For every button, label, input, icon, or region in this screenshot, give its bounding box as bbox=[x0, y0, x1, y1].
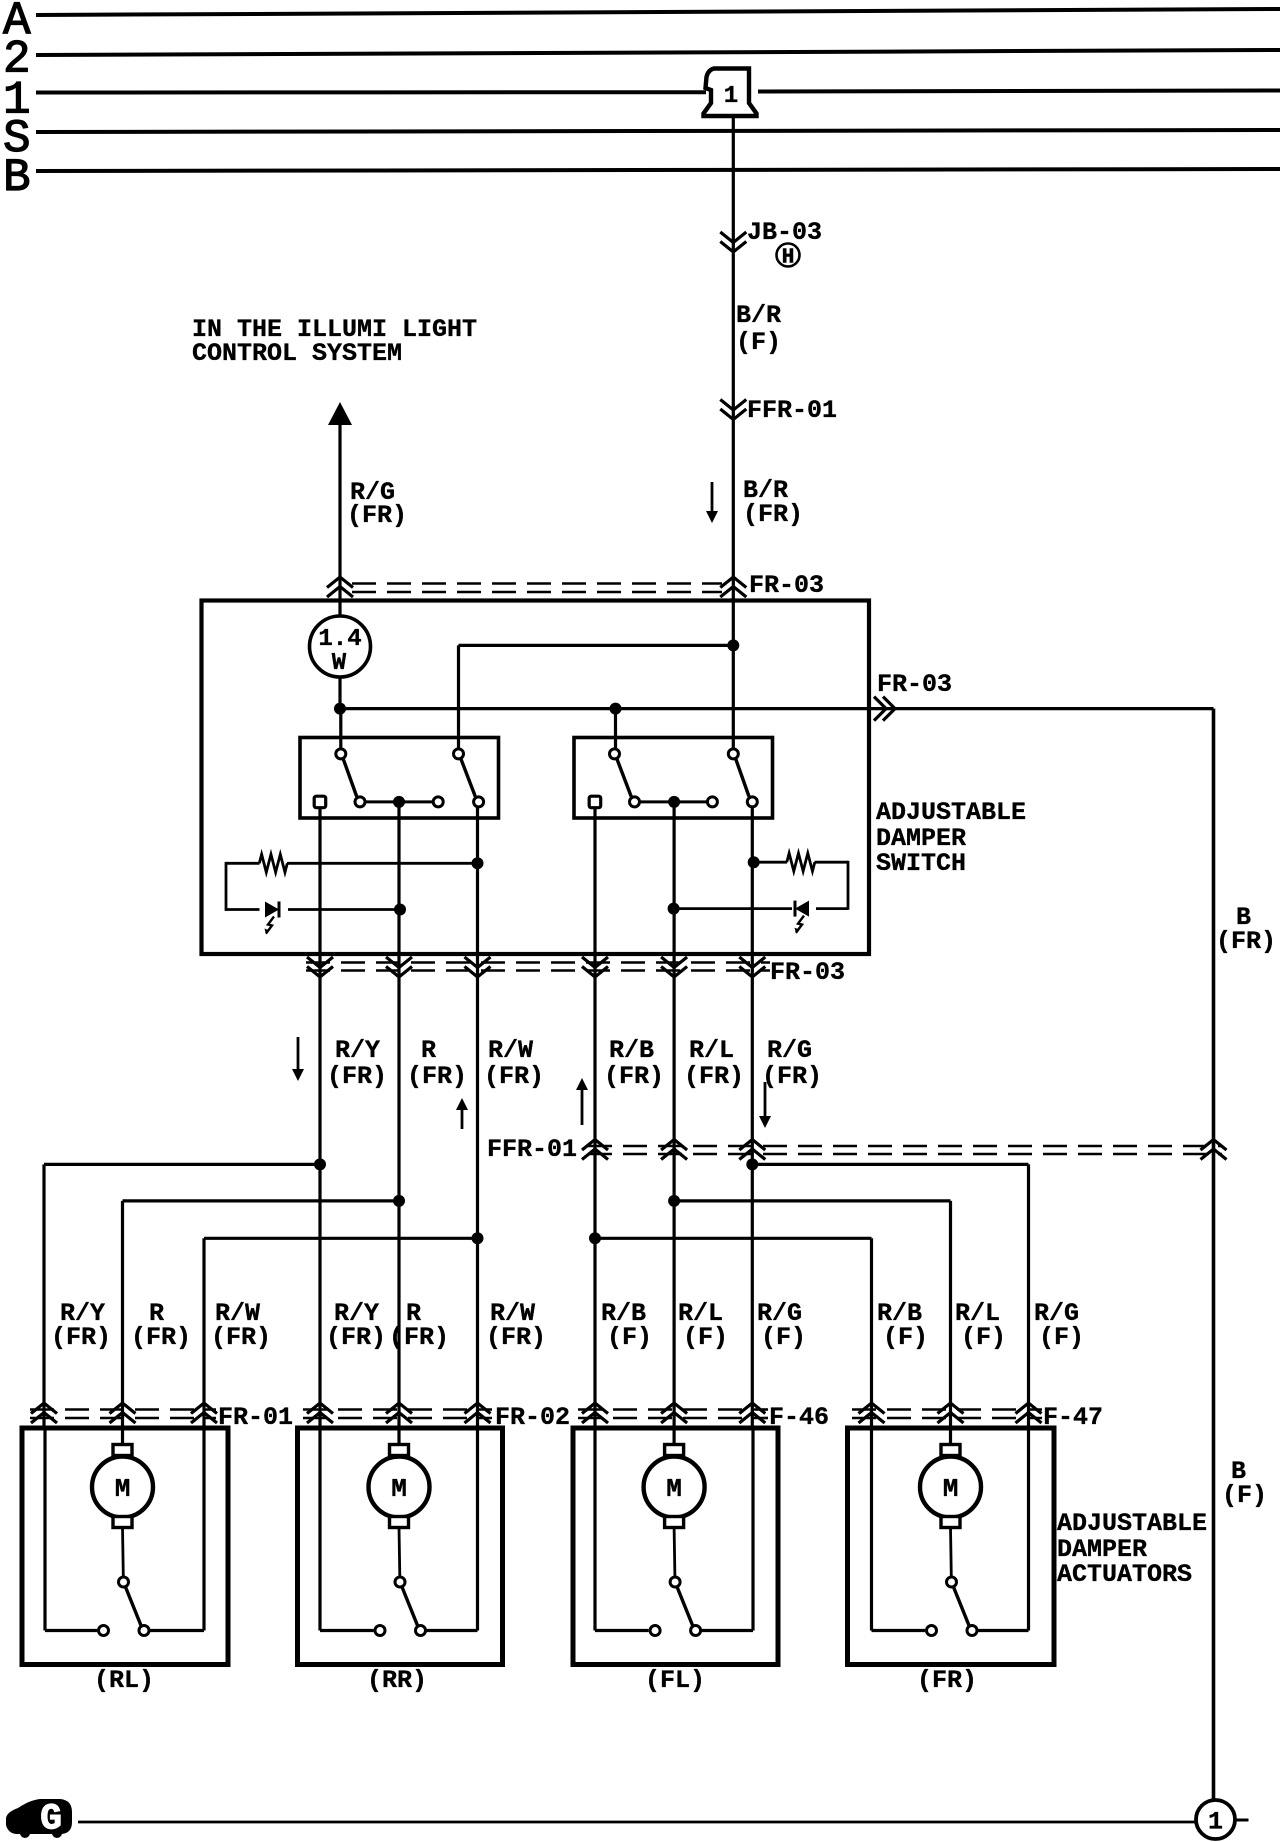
node branch R/W bbox=[472, 1232, 484, 1244]
svg-text:(F): (F) bbox=[761, 1323, 806, 1352]
svg-text:FR-03: FR-03 bbox=[877, 670, 952, 699]
svg-text:FFR-01: FFR-01 bbox=[747, 396, 837, 425]
wire branch row 3 right (R/B to FR) bbox=[595, 1237, 872, 1240]
node left LED tap on R wire bbox=[394, 904, 406, 916]
svg-text:(FR): (FR) bbox=[131, 1323, 191, 1352]
wire R/B(FR) from switch to actuator branch bbox=[593, 808, 596, 1428]
connector FR-03 bottom chevron x595 bbox=[582, 967, 608, 978]
svg-text:B: B bbox=[3, 152, 31, 204]
bus line 1 right segment bbox=[758, 91, 1280, 92]
svg-text:(FR): (FR) bbox=[604, 1062, 664, 1091]
connector FFR-01 dashed lines bbox=[588, 1145, 1222, 1148]
svg-text:1: 1 bbox=[724, 83, 738, 110]
svg-text:(FR): (FR) bbox=[484, 1062, 544, 1091]
connector FFR-01 chevron on B wire bbox=[1201, 1140, 1227, 1151]
wire branch row 3 left (R/W to RL) bbox=[204, 1237, 478, 1240]
node branch R/Y bbox=[314, 1158, 326, 1170]
svg-text:(FR): (FR) bbox=[1216, 927, 1276, 956]
wire R(FR) from switch to actuator branch bbox=[397, 802, 400, 1428]
bus line 1 left segment bbox=[36, 90, 706, 94]
svg-text:FR-03: FR-03 bbox=[770, 958, 845, 987]
wire R/G(FR) from switch to actuator branch bbox=[751, 808, 754, 1428]
wire branch row 1 right (R/G to FR) bbox=[752, 1163, 1028, 1166]
wire right switch feed bbox=[614, 709, 617, 748]
svg-text:H: H bbox=[782, 247, 795, 270]
svg-text:(FL): (FL) bbox=[645, 1666, 705, 1695]
arrow down beside R/G wire bbox=[764, 1082, 767, 1117]
svg-text:(FR): (FR) bbox=[917, 1666, 977, 1695]
node branch R/L bbox=[668, 1195, 680, 1207]
bus line B bbox=[36, 169, 1280, 171]
connector F-46 chevron x674 bbox=[661, 1403, 687, 1414]
wire bulb junction to left switch bbox=[339, 709, 342, 748]
connector FR-01 chevron x44 bbox=[31, 1403, 57, 1414]
wire branch row 2 left (R to RL) bbox=[123, 1199, 400, 1202]
svg-text:R: R bbox=[421, 1036, 436, 1065]
wire branch row 2 right (R/L to FR) bbox=[674, 1199, 950, 1202]
svg-text:(FR): (FR) bbox=[389, 1323, 449, 1352]
connector FR-03 exit chevron bbox=[883, 697, 895, 721]
ground node 1 circle bbox=[1196, 1800, 1235, 1839]
connector FFR-01 chevron x674 bbox=[661, 1140, 687, 1151]
svg-text:(FR): (FR) bbox=[684, 1062, 744, 1091]
connector F-46 chevron x595 bbox=[582, 1403, 608, 1414]
wire B/R from tag 1 down into switch box bbox=[732, 116, 735, 748]
node right LED tap on R/L wire bbox=[668, 903, 680, 915]
svg-text:R/W: R/W bbox=[488, 1036, 533, 1065]
connector FR-03 bottom chevron x674 bbox=[661, 967, 687, 978]
svg-text:(FR): (FR) bbox=[211, 1323, 271, 1352]
wire bulb to junction bbox=[338, 677, 341, 712]
wire feeder R/W(FR) to RL bbox=[202, 1238, 205, 1428]
connector FR-03 bottom chevron x399 bbox=[386, 967, 412, 978]
node branch R bbox=[393, 1195, 405, 1207]
arrow up beside R/W wire bbox=[461, 1109, 464, 1129]
svg-text:SWITCH: SWITCH bbox=[876, 849, 966, 878]
node branch R/G bbox=[746, 1158, 758, 1170]
svg-text:(F): (F) bbox=[961, 1323, 1006, 1352]
svg-text:(FR): (FR) bbox=[347, 501, 407, 530]
svg-text:M: M bbox=[391, 1474, 407, 1504]
connector FR-02 dashed lines bbox=[303, 1408, 492, 1411]
connector FR-03 bottom chevron x320 bbox=[307, 967, 333, 978]
wire branch row 1 left (R/Y to RL) bbox=[44, 1163, 320, 1166]
svg-text:JB-03: JB-03 bbox=[747, 218, 822, 247]
svg-text:1.4: 1.4 bbox=[318, 626, 361, 653]
connector FR-03 bottom dashed lines bbox=[306, 961, 770, 964]
arrow down beside B/R (FR) bbox=[711, 482, 714, 512]
ground wire bbox=[78, 1821, 1196, 1824]
wire R/G from switch box up bbox=[338, 424, 341, 616]
connector FFR-01 chevron on B/R wire bbox=[720, 409, 746, 420]
connector F-46 chevron x752 bbox=[739, 1403, 765, 1414]
connector FFR-01 chevron x595 bbox=[582, 1140, 608, 1151]
svg-text:ADJUSTABLE: ADJUSTABLE bbox=[876, 798, 1026, 827]
connector JB-03 chevron bbox=[720, 242, 746, 253]
svg-text:W: W bbox=[332, 650, 347, 677]
bus line 2 bbox=[36, 50, 1280, 55]
bus line A bbox=[36, 9, 1280, 15]
node over-link junction on B/R bbox=[727, 639, 739, 651]
bulb 1.4W circle bbox=[310, 616, 371, 677]
connector FR-01 chevron x122 bbox=[110, 1403, 136, 1414]
svg-text:CONTROL SYSTEM: CONTROL SYSTEM bbox=[192, 339, 402, 368]
svg-text:FFR-01: FFR-01 bbox=[487, 1135, 577, 1164]
node bulb junction bbox=[334, 703, 346, 715]
wire feeder R/G(F) to FR bbox=[1027, 1164, 1030, 1428]
svg-text:(RR): (RR) bbox=[367, 1666, 427, 1695]
svg-text:FR-02: FR-02 bbox=[495, 1403, 570, 1432]
connector FR-02 chevron x477 bbox=[465, 1403, 491, 1414]
svg-text:(F): (F) bbox=[1222, 1481, 1267, 1510]
node left resistor tap on R/W wire bbox=[472, 857, 484, 869]
ground symbol G (body ground) bbox=[6, 1799, 72, 1834]
wire FR-03 internal horizontal bbox=[340, 707, 869, 710]
svg-text:(FR): (FR) bbox=[327, 1062, 387, 1091]
actuator RL (adjustable damper actuator rear-left) bbox=[22, 1428, 228, 1665]
harness symbol H in circle bbox=[777, 244, 800, 267]
arrow up beside R/B wire bbox=[581, 1089, 584, 1125]
arrow up to illumi light control system bbox=[328, 402, 352, 425]
node FR-03 to right switch junction bbox=[610, 703, 622, 715]
svg-text:R/G: R/G bbox=[767, 1036, 812, 1065]
svg-text:(FR): (FR) bbox=[762, 1062, 822, 1091]
svg-text:(FR): (FR) bbox=[743, 500, 803, 529]
wire feeder R/Y(FR) to RL bbox=[42, 1164, 45, 1428]
svg-text:(F): (F) bbox=[607, 1323, 652, 1352]
wire R/L(FR) from switch to actuator branch bbox=[672, 802, 675, 1428]
actuator FL (adjustable damper actuator front-left) bbox=[573, 1428, 778, 1665]
resistor right bbox=[787, 853, 815, 871]
svg-text:M: M bbox=[943, 1474, 959, 1504]
connector FR-02 chevron x399 bbox=[386, 1403, 412, 1414]
actuator FR (adjustable damper actuator front-right) bbox=[848, 1428, 1055, 1665]
node right resistor tap on R/G wire bbox=[748, 856, 760, 868]
wire feeder R/B(F) to FR bbox=[870, 1238, 873, 1428]
connector FR-03 chevron on B/R wire bbox=[720, 577, 746, 588]
svg-text:(F): (F) bbox=[736, 328, 781, 357]
wire feeder R/L(F) to FR bbox=[949, 1201, 952, 1428]
connector FR-03 bottom chevron x752 bbox=[739, 967, 765, 978]
svg-text:ADJUSTABLE: ADJUSTABLE bbox=[1057, 1509, 1207, 1538]
LED left bbox=[265, 902, 279, 918]
wire B(FR) from switch box to right edge and down bbox=[869, 707, 1214, 710]
svg-text:R/Y: R/Y bbox=[335, 1036, 380, 1065]
svg-text:(F): (F) bbox=[883, 1323, 928, 1352]
connector FR-01 chevron x204 bbox=[191, 1403, 217, 1414]
switch pole right (front dampers) bbox=[574, 738, 773, 819]
svg-text:(FR): (FR) bbox=[326, 1323, 386, 1352]
svg-text:FR-03: FR-03 bbox=[749, 571, 824, 600]
svg-text:R/L: R/L bbox=[689, 1036, 734, 1065]
connector F-47 chevron x1028 bbox=[1016, 1403, 1042, 1414]
svg-text:(F): (F) bbox=[683, 1323, 728, 1352]
actuator RR (adjustable damper actuator rear-right) bbox=[298, 1428, 503, 1665]
node branch R/B bbox=[589, 1232, 601, 1244]
svg-text:M: M bbox=[115, 1474, 131, 1504]
LED right bbox=[795, 901, 809, 917]
wire feeder R(FR) to RL bbox=[121, 1201, 124, 1428]
svg-text:(F): (F) bbox=[1039, 1323, 1084, 1352]
connector FR-03 bottom chevron x477 bbox=[465, 967, 491, 978]
connector F-47 chevron x871 bbox=[859, 1403, 885, 1414]
svg-text:(FR): (FR) bbox=[486, 1323, 546, 1352]
connector FR-03 chevron on R/G wire bbox=[327, 577, 353, 588]
wire R/Y(FR) from switch to actuator branch bbox=[318, 808, 321, 1428]
wire R/W(FR) from switch to actuator branch bbox=[476, 808, 479, 1428]
connector F-47 dashed lines bbox=[852, 1408, 1042, 1411]
svg-text:B/R: B/R bbox=[736, 301, 781, 330]
connector F-46 dashed lines bbox=[578, 1408, 768, 1411]
switch pole left (rear dampers) bbox=[300, 738, 499, 819]
connector FR-03 top boundary dashed lines bbox=[352, 582, 722, 585]
svg-text:1: 1 bbox=[1208, 1808, 1223, 1837]
arrow down beside R/Y wire bbox=[297, 1037, 300, 1070]
wire over-link left switch to B/R bbox=[457, 645, 460, 748]
bus line S bbox=[36, 130, 1280, 132]
adjustable damper switch box bbox=[202, 601, 870, 955]
resistor left bbox=[259, 854, 287, 872]
svg-text:(FR): (FR) bbox=[51, 1323, 111, 1352]
wire right illumination loop bbox=[754, 861, 787, 864]
svg-text:G: G bbox=[40, 1799, 62, 1840]
connector FR-02 chevron x320 bbox=[307, 1403, 333, 1414]
svg-text:(FR): (FR) bbox=[407, 1062, 467, 1091]
svg-text:ACTUATORS: ACTUATORS bbox=[1057, 1560, 1192, 1589]
svg-text:M: M bbox=[666, 1474, 682, 1504]
svg-text:R/B: R/B bbox=[609, 1036, 654, 1065]
wire left illumination loop bbox=[226, 862, 260, 865]
connector FFR-01 chevron x752 bbox=[739, 1140, 765, 1151]
connector FR-01 dashed lines bbox=[30, 1408, 216, 1411]
ground wire stub right of node 1 bbox=[1235, 1819, 1249, 1822]
svg-text:(RL): (RL) bbox=[94, 1666, 154, 1695]
connector F-47 chevron x950 bbox=[938, 1403, 964, 1414]
connector tag 1 (power feed from bus 1) bbox=[704, 69, 757, 117]
